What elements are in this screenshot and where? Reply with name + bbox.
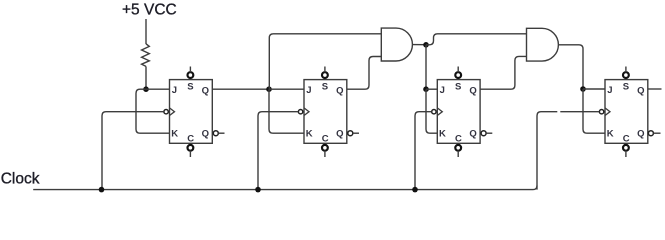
node Q0 junction <box>266 86 272 92</box>
wire node J4 to FF4 K input <box>583 89 605 133</box>
wire resistor to node J1 <box>145 66 147 89</box>
flip-flop U2 label J <box>306 85 311 96</box>
resistor R1 <box>142 44 150 67</box>
flip-flop U3 label Qbar <box>469 128 476 139</box>
svg-text:J: J <box>440 85 445 96</box>
flip-flop U3 clear C bubble <box>455 145 461 151</box>
flip-flop U1 clear C bubble <box>188 145 194 151</box>
flip-flop U3 box <box>437 80 480 144</box>
flip-flop U1 label J <box>172 85 177 96</box>
flip-flop U4 clock bubble <box>599 110 603 114</box>
svg-text:Q: Q <box>469 128 476 139</box>
flip-flop U4 label C <box>623 134 630 145</box>
flip-flop U1 Qbar bubble <box>213 131 218 136</box>
wire clock to FF4 clock (segment after gap) <box>560 111 599 113</box>
wire node Q0 to AND1 top input <box>269 34 381 89</box>
wire node A down to node J3 <box>425 45 427 89</box>
flip-flop U1 clear stub <box>189 151 191 158</box>
flip-flop U1 label S <box>187 82 193 93</box>
flip-flop U3 clock bubble <box>432 110 436 114</box>
flip-flop U1 preset S bubble <box>188 72 194 78</box>
flip-flop U4 label Q <box>637 86 644 97</box>
flip-flop U3 label Q <box>469 86 476 97</box>
wire FF4 Q output stub <box>648 88 662 90</box>
node VCC label <box>122 2 177 19</box>
flip-flop U2 clear stub <box>324 151 326 158</box>
svg-text:J: J <box>306 85 311 96</box>
wire node Q0 to FF2 K input <box>269 89 304 133</box>
AND gate G2 <box>527 28 559 61</box>
flip-flop U2 label K <box>306 129 313 140</box>
flip-flop U2 Qbar bubble <box>348 131 353 136</box>
flip-flop U3 preset stub <box>457 67 459 73</box>
wire node J3 to FF3 K input <box>426 89 437 133</box>
flip-flop U2 label Qbar <box>336 128 343 139</box>
svg-text:Q: Q <box>202 128 209 139</box>
flip-flop U1 clock edge triangle <box>170 108 175 116</box>
svg-text:C: C <box>623 134 630 145</box>
svg-text:S: S <box>187 82 193 93</box>
flip-flop U2 label S <box>322 82 328 93</box>
flip-flop U2 box <box>304 80 347 144</box>
flip-flop U4 label J <box>607 85 612 96</box>
flip-flop U4 label S <box>623 82 629 93</box>
svg-text:C: C <box>455 134 462 145</box>
flip-flop U2 preset S bubble <box>322 72 328 78</box>
wire FF2 clock to bus riser <box>258 112 298 190</box>
wire node J1 to FF1 K input <box>136 89 170 133</box>
svg-text:Q: Q <box>469 86 476 97</box>
flip-flop U4 label Qbar <box>637 128 644 139</box>
flip-flop U1 Qbar stub <box>218 132 224 134</box>
flip-flop U4 clear C bubble <box>623 145 629 151</box>
wire clock riser to FF4 clock (segment before gap) <box>537 112 557 190</box>
svg-text:+5 VCC: +5 VCC <box>122 2 177 19</box>
node clock junction 1 <box>99 187 105 193</box>
node J3 junction <box>423 86 429 92</box>
flip-flop U4 preset S bubble <box>623 72 629 78</box>
flip-flop U3 label K <box>439 129 446 140</box>
node Clock label <box>1 170 40 187</box>
flip-flop U1 label K <box>171 129 178 140</box>
wire node A to AND2 top input <box>426 34 527 45</box>
wire AND1 output to node A <box>413 44 427 46</box>
flip-flop U3 label S <box>455 82 461 93</box>
node A junction (AND1 output) <box>423 42 429 48</box>
svg-text:C: C <box>187 134 194 145</box>
svg-text:S: S <box>322 82 328 93</box>
flip-flop U1 preset stub <box>189 67 191 73</box>
flip-flop U4 Qbar bubble <box>648 131 653 136</box>
wire FF2 Q to AND1 bottom input <box>347 57 382 90</box>
svg-text:Q: Q <box>202 86 209 97</box>
flip-flop U4 Qbar stub <box>653 132 660 134</box>
flip-flop U1 label Qbar <box>202 128 209 139</box>
svg-text:Clock: Clock <box>1 170 40 187</box>
wire node J1 to FF1 J input <box>146 88 170 90</box>
flip-flop U2 clock bubble <box>298 110 302 114</box>
flip-flop U4 clear stub <box>625 151 627 158</box>
svg-text:Q: Q <box>336 128 343 139</box>
flip-flop U3 Qbar bubble <box>481 131 486 136</box>
flip-flop U3 Qbar stub <box>486 132 492 134</box>
flip-flop U3 preset S bubble <box>455 72 461 78</box>
flip-flop U1 clock bubble <box>164 110 168 114</box>
svg-text:Q: Q <box>637 128 644 139</box>
wire FF3 clock to bus riser <box>415 112 432 190</box>
node J1 junction <box>143 86 149 92</box>
node J4 junction <box>580 86 586 92</box>
svg-text:Q: Q <box>637 86 644 97</box>
flip-flop U2 clear C bubble <box>322 145 328 151</box>
svg-text:K: K <box>306 129 313 140</box>
svg-text:S: S <box>455 82 461 93</box>
flip-flop U1 label Q <box>202 86 209 97</box>
flip-flop U4 preset stub <box>625 67 627 73</box>
flip-flop U2 clock edge triangle <box>304 108 309 116</box>
flip-flop U4 clock edge triangle <box>605 108 610 116</box>
wire FF1 clock to bus riser <box>102 112 164 190</box>
svg-text:K: K <box>171 129 178 140</box>
flip-flop U2 label Q <box>336 86 343 97</box>
flip-flop U2 Qbar stub <box>353 132 359 134</box>
wire clock bus <box>33 186 537 190</box>
wire node Q0 to FF2 J input <box>269 88 304 90</box>
svg-text:K: K <box>607 129 614 140</box>
node clock junction 2 <box>255 187 261 193</box>
svg-text:K: K <box>439 129 446 140</box>
svg-text:J: J <box>172 85 177 96</box>
wire VCC to resistor <box>145 19 147 44</box>
wire FF3 Q to AND2 bottom input <box>480 56 526 89</box>
flip-flop U1 label C <box>187 134 194 145</box>
flip-flop U3 label C <box>455 134 462 145</box>
flip-flop U1 box <box>170 80 213 144</box>
AND gate G1 <box>381 28 412 61</box>
wire node J3 to FF3 J input <box>426 88 437 90</box>
node clock junction 3 <box>412 187 418 193</box>
svg-text:S: S <box>623 82 629 93</box>
flip-flop U4 label K <box>607 129 614 140</box>
flip-flop U3 clock edge triangle <box>437 108 442 116</box>
flip-flop U3 label J <box>440 85 445 96</box>
flip-flop U3 clear stub <box>457 151 459 158</box>
wire node J4 to FF4 J input <box>583 88 605 90</box>
flip-flop U4 box <box>605 80 648 144</box>
wire AND2 output to node J4 <box>558 45 583 89</box>
svg-text:J: J <box>607 85 612 96</box>
svg-text:C: C <box>322 134 329 145</box>
svg-text:Q: Q <box>336 86 343 97</box>
flip-flop U2 label C <box>322 134 329 145</box>
wire FF1 Q to node Q0 <box>212 88 269 90</box>
flip-flop U2 preset stub <box>324 67 326 73</box>
